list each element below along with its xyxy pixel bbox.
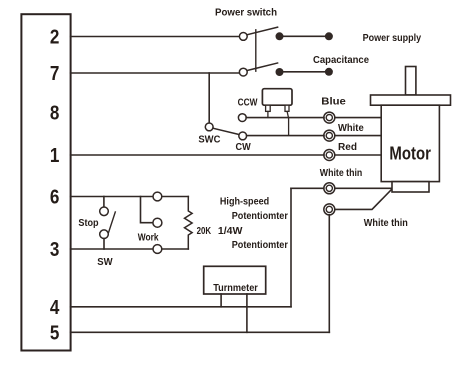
svg-text:6: 6 <box>50 187 60 209</box>
svg-text:Blue: Blue <box>321 96 346 108</box>
Blue ring terminal <box>324 112 335 123</box>
work switch upper contact on pin6 line <box>153 192 162 201</box>
svg-text:High-speed: High-speed <box>220 196 269 208</box>
power switch pole 2 input contact <box>239 68 247 76</box>
stop switch lower contact <box>100 230 109 239</box>
motor bottom flange <box>392 182 429 192</box>
power switch pole 1 blade <box>247 27 277 35</box>
stop branch to pin3 line <box>103 239 105 250</box>
Red ring terminal <box>324 150 335 161</box>
svg-text:3: 3 <box>50 239 60 261</box>
wire pin1 to Red terminal <box>71 154 324 156</box>
SWC blade to CW <box>213 128 238 134</box>
power supply node dot <box>325 32 333 40</box>
power switch pole 2 blade <box>247 63 277 71</box>
wire pin7 to power switch pole 2 <box>71 72 240 74</box>
stop branch drop from pin6 <box>103 197 105 208</box>
wire pin3 <box>71 248 189 250</box>
SWC common contact <box>205 123 213 131</box>
capacitor left pin <box>266 105 271 111</box>
svg-text:1: 1 <box>50 145 60 167</box>
svg-text:Work: Work <box>138 231 159 243</box>
stop switch upper contact <box>100 207 109 216</box>
work branch wire from pin6 down and right <box>141 197 153 223</box>
svg-text:7: 7 <box>50 63 60 85</box>
svg-text:Potentiomter: Potentiomter <box>232 210 288 222</box>
CW contact <box>239 132 247 140</box>
White ring terminal <box>324 130 335 141</box>
wire pin2 to power switch pole 1 <box>71 36 240 38</box>
svg-text:CCW: CCW <box>238 96 258 108</box>
wire CW contact to White terminal <box>247 135 324 137</box>
stop switch blade <box>109 212 116 232</box>
svg-text:4: 4 <box>50 297 60 319</box>
terminal block connector <box>21 14 70 350</box>
White thin ring terminal 2 <box>324 204 335 215</box>
wire CCW contact to Blue terminal <box>246 117 324 119</box>
svg-text:Capacitance: Capacitance <box>313 54 369 66</box>
svg-text:SWC: SWC <box>198 133 220 145</box>
svg-text:Stop: Stop <box>78 217 98 229</box>
svg-text:20K: 20K <box>197 225 212 237</box>
wire pole 2 dot to capacitance dot <box>284 71 325 73</box>
motor top flange <box>371 95 451 105</box>
wire pin4 <box>71 306 291 308</box>
work switch middle contact <box>153 218 162 227</box>
motor body U1 <box>381 105 439 181</box>
capacitor right pin <box>285 105 289 111</box>
wire pin6 <box>71 196 189 198</box>
capacitor right lead <box>287 111 289 135</box>
svg-text:Red: Red <box>338 141 357 153</box>
svg-text:SW: SW <box>97 256 112 268</box>
capacitance node dot <box>325 68 333 76</box>
svg-text:Potentiomter: Potentiomter <box>232 239 288 251</box>
turnmeter box <box>204 266 266 294</box>
svg-text:Power switch: Power switch <box>215 6 277 18</box>
vertical wire white thin terminal 2 down to pin5 line <box>328 215 330 332</box>
svg-text:White thin: White thin <box>364 217 408 229</box>
power switch linkage bar <box>255 30 257 71</box>
wire Blue terminal to motor <box>335 117 381 119</box>
svg-text:White thin: White thin <box>320 167 363 179</box>
turnmeter leg to pin4 line <box>220 294 222 307</box>
work switch lower contact on pin3 line <box>153 245 162 254</box>
svg-text:Motor: Motor <box>389 144 431 164</box>
power switch pole 2 output dot <box>276 68 284 76</box>
svg-text:8: 8 <box>50 103 60 125</box>
diagonal wire motor flange to white thin terminal 2 <box>335 189 392 209</box>
White thin ring terminal 1 <box>324 183 335 194</box>
capacitor body <box>262 89 292 106</box>
svg-text:2: 2 <box>50 27 60 49</box>
svg-text:Turnmeter: Turnmeter <box>213 282 258 294</box>
vertical wire white thin bus down to pin4 line <box>290 188 292 306</box>
motor shaft <box>406 67 416 96</box>
svg-text:Power supply: Power supply <box>363 32 422 44</box>
wire white thin terminal 1 to motor flange <box>335 187 392 189</box>
wire pole 1 dot to power supply dot <box>284 35 325 37</box>
turnmeter leg to pin5 line <box>246 294 248 332</box>
svg-text:5: 5 <box>50 322 60 344</box>
wire White terminal to motor <box>335 135 381 137</box>
power switch pole 1 output dot <box>276 32 284 40</box>
wire pin7 line down to SWC <box>208 73 210 123</box>
svg-text:White: White <box>338 122 364 134</box>
power switch pole 1 input contact <box>239 33 247 41</box>
resistor R1 20K 1/4W <box>185 197 193 250</box>
svg-text:CW: CW <box>236 141 251 153</box>
wire white thin terminal 1 to drop bus <box>291 187 324 189</box>
svg-text:1/4W: 1/4W <box>218 225 243 237</box>
wire Red terminal to motor <box>335 154 381 156</box>
wire pin5 <box>71 331 330 333</box>
capacitor left lead <box>267 111 269 117</box>
CCW contact <box>238 114 246 122</box>
